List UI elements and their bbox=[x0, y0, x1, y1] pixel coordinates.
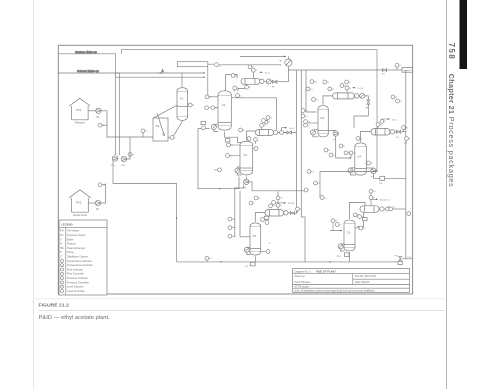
wire: C5 bottoms to bottom trunk bbox=[254, 256, 256, 262]
stream label solvent recovery bbox=[375, 198, 378, 200]
extra instrument tag labels bbox=[235, 75, 403, 218]
svg-text:FC: FC bbox=[380, 125, 383, 127]
svg-text:P3: P3 bbox=[244, 188, 247, 190]
svg-text:To C4: To C4 bbox=[357, 88, 363, 90]
svg-text:FI: FI bbox=[349, 88, 351, 90]
instruments above HE2 bbox=[260, 123, 264, 127]
condenser circle HE4 end bbox=[390, 130, 394, 134]
wire: C3 overhead bbox=[323, 96, 333, 105]
instrument on P2 riser bbox=[98, 183, 102, 187]
svg-text:LI: LI bbox=[209, 108, 211, 110]
stream label from HE3 bbox=[353, 87, 356, 89]
instrument on R1 feed bbox=[141, 129, 145, 133]
svg-text:P1b: P1b bbox=[121, 165, 126, 167]
svg-text:Boiler: Boiler bbox=[67, 237, 74, 241]
svg-text:P9: P9 bbox=[380, 183, 383, 185]
instrument above line bbox=[395, 63, 399, 67]
arrow on loop bbox=[220, 188, 221, 190]
mixer M1 (circle with diagonal) bbox=[285, 59, 292, 66]
instruments right of C2 dome bbox=[247, 137, 251, 141]
svg-text:FC: FC bbox=[311, 171, 314, 173]
svg-text:PI: PI bbox=[395, 97, 397, 99]
svg-text:TI: TI bbox=[268, 122, 270, 124]
wire: C2 bottoms trunk bbox=[249, 182, 306, 191]
svg-text:PI: PI bbox=[328, 150, 330, 152]
wire: R1 vapor to V1 bbox=[154, 105, 177, 118]
stream label to C3 bbox=[284, 127, 287, 129]
wire: mixer top feed bbox=[240, 55, 286, 57]
wire: feed pair drop center bbox=[290, 70, 296, 213]
wire: C4 bottoms to right trunk bbox=[385, 177, 406, 179]
wire: C1 side draw bbox=[231, 98, 276, 130]
wire: recycle branch mid right bbox=[304, 127, 377, 199]
svg-text:Solvent rec: Solvent rec bbox=[380, 199, 390, 202]
svg-text:M1: M1 bbox=[280, 60, 284, 62]
svg-text:FO: FO bbox=[396, 137, 399, 139]
svg-text:FIGURE 21.2: FIGURE 21.2 bbox=[39, 303, 70, 309]
instruments on C5 riser bbox=[276, 196, 280, 200]
wire: C5 feed in bbox=[240, 236, 250, 238]
svg-text:Solvent Make-up: Solvent Make-up bbox=[77, 69, 99, 73]
header drum loop bbox=[177, 62, 207, 67]
svg-text:Pre Heater: Pre Heater bbox=[67, 229, 79, 233]
wire: C1 overhead bbox=[226, 75, 237, 91]
instrument under HE1 bbox=[245, 85, 249, 89]
reboiler C3 bbox=[311, 130, 316, 135]
svg-text:Flow Controller: Flow Controller bbox=[67, 272, 84, 276]
wire: C1 reboiler loop down bbox=[198, 129, 239, 189]
valve at top right bbox=[382, 69, 386, 72]
svg-text:To PV1: To PV1 bbox=[288, 203, 296, 205]
svg-text:PI: PI bbox=[132, 154, 134, 156]
condenser circle HE1 end bbox=[260, 79, 264, 83]
label P8 under HE4 area bbox=[405, 137, 409, 141]
instruments left of C6 bbox=[331, 219, 335, 223]
svg-text:P1: P1 bbox=[97, 116, 101, 119]
pump P5 below C3 bbox=[333, 131, 338, 136]
reboiler C5 bbox=[244, 247, 249, 252]
stream label near C5 top bbox=[283, 202, 286, 204]
svg-text:FC: FC bbox=[209, 258, 212, 260]
wire: drum to mixer bbox=[208, 64, 281, 65]
wire: C6 bottoms bbox=[349, 252, 351, 262]
column C5 bbox=[250, 223, 261, 255]
instruments left of C3 bbox=[304, 120, 308, 124]
wire: HE3 to C4 feed bbox=[354, 104, 368, 128]
svg-text:PC: PC bbox=[373, 191, 376, 193]
circle pump after HE1 bbox=[266, 79, 271, 84]
right edge pump symbols bbox=[407, 212, 411, 216]
svg-text:R1: R1 bbox=[156, 124, 160, 128]
instrument right of HE4 bbox=[402, 126, 406, 130]
svg-text:PH: PH bbox=[60, 229, 64, 233]
svg-text:Note: All distillation column: Note: All distillation columns have larg… bbox=[295, 289, 376, 292]
wire: HE4 product to right trunk bbox=[401, 131, 406, 133]
svg-text:LI: LI bbox=[349, 82, 351, 84]
instrument on recycle branch bbox=[314, 181, 318, 185]
condenser circle HE5 end bbox=[284, 211, 288, 215]
instruments left of HE3 bbox=[310, 80, 314, 84]
svg-text:P: P bbox=[60, 250, 62, 254]
svg-text:TC: TC bbox=[280, 198, 283, 200]
wire: C4 overhead bbox=[361, 132, 372, 143]
instruments left of C4 bbox=[344, 151, 348, 155]
svg-text:LI: LI bbox=[280, 205, 282, 207]
heat exchanger HE6 bbox=[360, 206, 379, 213]
instrument on V1 bbox=[188, 103, 192, 107]
svg-text:LI: LI bbox=[308, 190, 310, 192]
svg-text:P&ID OF PLANT: P&ID OF PLANT bbox=[316, 269, 336, 273]
svg-text:FI: FI bbox=[243, 130, 245, 132]
heat exchanger HE2 bbox=[256, 130, 274, 136]
svg-text:C6: C6 bbox=[347, 231, 351, 235]
wire: P1 discharge bbox=[101, 111, 153, 137]
svg-text:PI: PI bbox=[332, 89, 334, 91]
instrument tag labels bbox=[102, 65, 411, 260]
svg-text:LC: LC bbox=[393, 207, 396, 209]
instrument above pumps bbox=[128, 153, 132, 157]
wire: trunk y73 solvent continuation bbox=[115, 72, 205, 74]
svg-text:FC: FC bbox=[219, 66, 222, 68]
svg-text:PC: PC bbox=[264, 125, 267, 127]
svg-text:LC: LC bbox=[399, 65, 402, 67]
instrument left of C2 reboiler bbox=[218, 168, 222, 172]
svg-text:FI: FI bbox=[193, 105, 195, 107]
stream label to C2 bbox=[260, 71, 263, 73]
svg-text:Diagram No. 3: Diagram No. 3 bbox=[295, 270, 312, 273]
valve under HE3 outlet bbox=[367, 100, 370, 104]
svg-text:PC: PC bbox=[314, 82, 317, 84]
column C6 bbox=[344, 220, 355, 251]
svg-text:Drawn by:: Drawn by: bbox=[295, 275, 306, 278]
svg-text:To C2: To C2 bbox=[265, 73, 271, 75]
faint rule above caption bbox=[34, 298, 445, 300]
column C1 bbox=[218, 91, 231, 130]
svg-text:Temperature Indicator: Temperature Indicator bbox=[67, 259, 92, 263]
wire: V1 overhead riser bbox=[181, 73, 183, 87]
wire: solvent make-up header bbox=[58, 73, 119, 155]
instruments left of C2 bbox=[227, 143, 231, 147]
instrument right of C1 bbox=[233, 86, 237, 90]
wire: PV1 outlet bbox=[88, 110, 95, 112]
wire: P2 discharge riser bbox=[101, 184, 106, 204]
instrument right of C5 bbox=[266, 250, 270, 254]
svg-text:P5: P5 bbox=[333, 139, 336, 141]
wire: mixer outlet to right header bbox=[288, 66, 382, 82]
svg-text:V1: V1 bbox=[180, 96, 184, 100]
wire: C4 bottoms box bbox=[374, 174, 380, 179]
svg-text:Pressure Indicator: Pressure Indicator bbox=[67, 276, 88, 280]
svg-text:PV: PV bbox=[60, 233, 64, 237]
wire: C2 overhead bbox=[246, 131, 255, 141]
svg-text:TI: TI bbox=[256, 70, 258, 72]
instrument on trunk bbox=[215, 63, 219, 67]
instrument pair above HE1 bbox=[248, 65, 252, 69]
svg-text:P10: P10 bbox=[337, 256, 342, 258]
svg-text:Reactor: Reactor bbox=[67, 242, 76, 246]
svg-text:TC: TC bbox=[145, 131, 148, 133]
column C3 bbox=[318, 106, 328, 137]
svg-text:LI: LI bbox=[240, 95, 242, 97]
wire: C5 overhead bbox=[255, 213, 265, 222]
instrument on bottom trunk bbox=[205, 256, 209, 260]
svg-text:LI: LI bbox=[340, 224, 342, 226]
wire: C1 feed drop bbox=[208, 67, 218, 97]
svg-text:Distillation Column: Distillation Column bbox=[67, 255, 89, 259]
arrow on loop vertical bbox=[176, 218, 178, 219]
svg-text:Heat Exchanger: Heat Exchanger bbox=[67, 246, 85, 250]
svg-text:P9: P9 bbox=[245, 266, 248, 268]
svg-text:C: C bbox=[60, 255, 62, 259]
svg-text:Ethanol: Ethanol bbox=[75, 121, 85, 125]
svg-text:C1: C1 bbox=[222, 103, 226, 107]
svg-text:P&ID — ethyl acetate plant.: P&ID — ethyl acetate plant. bbox=[39, 315, 111, 321]
storage tank PV2 (house) bbox=[69, 190, 91, 217]
instruments left of C5 drop bbox=[228, 217, 232, 221]
wire: C6 overhead bbox=[350, 202, 366, 219]
storage tank PV1 (house) bbox=[69, 98, 90, 124]
arrows on bottom trunk bbox=[221, 261, 222, 263]
svg-text:PC: PC bbox=[305, 116, 308, 118]
svg-text:FC: FC bbox=[363, 228, 366, 230]
svg-text:PV1: PV1 bbox=[76, 108, 82, 112]
stream label from HE4 bbox=[387, 118, 390, 120]
wire: right product trunk bbox=[405, 70, 407, 259]
wire: bottoms loop left bbox=[113, 158, 177, 262]
svg-text:KT PD troupe: KT PD troupe bbox=[295, 285, 310, 288]
svg-text:TI: TI bbox=[270, 117, 272, 119]
wire: HE3 product to valve bbox=[365, 96, 368, 100]
svg-text:FO: FO bbox=[382, 74, 385, 76]
wire: system make-up header bbox=[58, 54, 115, 155]
svg-text:Pressure Vessel: Pressure Vessel bbox=[67, 233, 86, 237]
pump P3 below C2 bbox=[244, 179, 249, 184]
svg-text:Chapter 21: Chapter 21 bbox=[447, 74, 456, 115]
svg-text:P8: P8 bbox=[405, 143, 408, 145]
instruments above HE5 bbox=[269, 204, 273, 208]
svg-text:LI: LI bbox=[174, 137, 176, 139]
svg-text:TC: TC bbox=[324, 197, 327, 199]
svg-text:TI: TI bbox=[384, 121, 386, 123]
chapter tab (black) bbox=[460, 0, 468, 69]
svg-text:TI: TI bbox=[343, 146, 345, 148]
wire: R1 outlet bbox=[168, 137, 170, 139]
wire: HE6 reflux to C6 bbox=[358, 212, 364, 227]
wire: feed drop 2 bbox=[301, 70, 305, 262]
instrument right of C6 bbox=[359, 226, 363, 230]
svg-text:R: R bbox=[60, 242, 62, 246]
svg-text:LC: LC bbox=[360, 138, 363, 140]
svg-text:Liq prod: Liq prod bbox=[403, 69, 411, 72]
reboiler C6 bbox=[338, 244, 343, 249]
svg-text:FC: FC bbox=[400, 101, 403, 103]
pump P2 bbox=[95, 200, 100, 205]
svg-text:Level Controller: Level Controller bbox=[67, 289, 85, 293]
page gutter edge line (left page edge) bbox=[33, 0, 35, 389]
svg-text:C4: C4 bbox=[357, 154, 361, 158]
extra instruments cluster bbox=[231, 74, 399, 219]
svg-text:Process packages: Process packages bbox=[447, 117, 456, 188]
svg-text:LC: LC bbox=[273, 206, 276, 208]
svg-text:LEGEND: LEGEND bbox=[61, 223, 73, 227]
svg-text:TC: TC bbox=[335, 221, 338, 223]
reboiler C2 bbox=[235, 168, 240, 173]
drawing border frame bbox=[58, 45, 412, 294]
svg-text:V: V bbox=[60, 237, 62, 241]
svg-text:Pump: Pump bbox=[67, 250, 74, 254]
svg-text:TI: TI bbox=[327, 82, 329, 84]
reboiler C1 bbox=[211, 125, 216, 130]
svg-text:LI: LI bbox=[308, 125, 310, 127]
valve + wire HE2 to feed pair bbox=[280, 131, 284, 135]
wire: C1 bottoms to C2 bbox=[225, 132, 242, 143]
svg-text:PV2: PV2 bbox=[76, 200, 82, 204]
svg-text:P2: P2 bbox=[96, 208, 100, 211]
instrument at R1 outlet bbox=[170, 136, 174, 140]
valve after HE1 bbox=[273, 80, 277, 83]
svg-text:PC: PC bbox=[406, 127, 409, 129]
svg-text:758: 758 bbox=[447, 43, 456, 61]
condenser circle HE6 end bbox=[380, 207, 384, 211]
svg-text:C3: C3 bbox=[320, 116, 324, 120]
heat exchanger HE4 bbox=[371, 129, 390, 136]
svg-text:Flow Indicator: Flow Indicator bbox=[67, 267, 83, 271]
column C2 bbox=[240, 141, 253, 175]
svg-text:TI: TI bbox=[371, 163, 373, 165]
small tag box left of C1 bbox=[201, 122, 206, 125]
pump P1b bbox=[121, 156, 126, 161]
heat exchanger HE3 bbox=[333, 93, 355, 99]
wire: bottom trunk bbox=[177, 261, 399, 263]
instruments above HE3 bbox=[345, 80, 349, 84]
valve after HE4 bbox=[395, 131, 397, 133]
bottom right valve assembly bbox=[402, 258, 412, 260]
instruments right of HE6 bbox=[384, 208, 385, 210]
heat exchanger HE5 bbox=[265, 210, 284, 217]
condenser circle HE3 end bbox=[355, 94, 359, 98]
sidebar rule bbox=[446, 0, 448, 389]
instruments above HE4 bbox=[380, 119, 384, 123]
svg-text:Hamid Khattan: Hamid Khattan bbox=[295, 281, 311, 284]
reactor R1 bbox=[153, 114, 168, 142]
wire: C2 bottoms drop to C5 bbox=[235, 185, 244, 238]
heat exchanger HE1 bbox=[241, 78, 260, 84]
svg-text:C5: C5 bbox=[252, 234, 256, 238]
node A arrow bbox=[158, 72, 162, 74]
wire: to V1 bottom bbox=[173, 121, 182, 136]
wire: C3 bottoms to C4 bbox=[328, 131, 351, 159]
wire: to product box bbox=[387, 69, 402, 71]
reboiler C4 bbox=[348, 168, 353, 173]
svg-text:Acetic Acid: Acetic Acid bbox=[73, 213, 88, 217]
svg-text:P4: P4 bbox=[272, 87, 275, 89]
tag box below HE6 bbox=[363, 218, 368, 221]
wire: recycle header (top inner) bbox=[121, 50, 377, 127]
svg-text:PI: PI bbox=[269, 243, 271, 245]
svg-text:System Make-up: System Make-up bbox=[75, 50, 97, 54]
svg-text:C2: C2 bbox=[243, 153, 247, 157]
vessel V1 bbox=[177, 88, 188, 121]
instruments below HE5 bbox=[261, 218, 265, 222]
svg-text:Temperature Controller: Temperature Controller bbox=[67, 263, 93, 267]
svg-text:PI: PI bbox=[409, 138, 411, 140]
svg-text:TC: TC bbox=[316, 99, 319, 101]
wire: C5 top feed riser bbox=[277, 191, 279, 209]
product label box top right bbox=[402, 67, 412, 72]
svg-text:PI: PI bbox=[249, 87, 251, 89]
wire: C6 feed in bbox=[330, 230, 342, 232]
svg-text:HE: HE bbox=[60, 246, 64, 250]
wire: HE1 reflux to C1 bbox=[238, 84, 247, 91]
wire: C3 feed drop bbox=[306, 70, 317, 112]
svg-text:TI: TI bbox=[253, 203, 255, 205]
svg-text:To C3: To C3 bbox=[289, 128, 295, 130]
instruments left of C1 bbox=[205, 95, 209, 99]
svg-text:FI: FI bbox=[258, 198, 260, 200]
instrument mid bbox=[304, 188, 308, 192]
condenser circle HE2 end bbox=[274, 130, 278, 134]
pump P1 bbox=[96, 108, 101, 113]
circle pump after HE3 bbox=[360, 93, 365, 98]
wire: HE1 to mixer bbox=[277, 81, 289, 83]
svg-text:PC: PC bbox=[252, 67, 255, 69]
pump P7 below C4 bbox=[371, 168, 376, 173]
svg-text:Pressure Controller: Pressure Controller bbox=[67, 280, 89, 284]
svg-text:Date 2004/15: Date 2004/15 bbox=[355, 281, 370, 284]
wire: PV2 outlet bbox=[88, 202, 95, 204]
svg-text:Level Indicator: Level Indicator bbox=[67, 285, 84, 289]
pump P1a bbox=[112, 156, 117, 161]
caption rule bbox=[39, 310, 446, 312]
wire: pumps to R1 feed bbox=[127, 137, 130, 159]
svg-text:FC: FC bbox=[310, 89, 313, 91]
valve + instruments right of HE5 bbox=[288, 212, 290, 214]
column C4 bbox=[355, 143, 367, 175]
svg-text:Mag: Mag bbox=[214, 170, 218, 172]
instruments above HE6 bbox=[369, 189, 373, 193]
instrument FI near P1 bbox=[98, 123, 102, 127]
wire: trunk y77 system continuation bbox=[116, 76, 206, 78]
svg-text:P1a: P1a bbox=[111, 165, 116, 167]
svg-text:To rec: To rec bbox=[392, 118, 398, 121]
svg-text:A: A bbox=[162, 69, 165, 73]
svg-text:Part No. 09CH 61/5: Part No. 09CH 61/5 bbox=[355, 275, 377, 278]
